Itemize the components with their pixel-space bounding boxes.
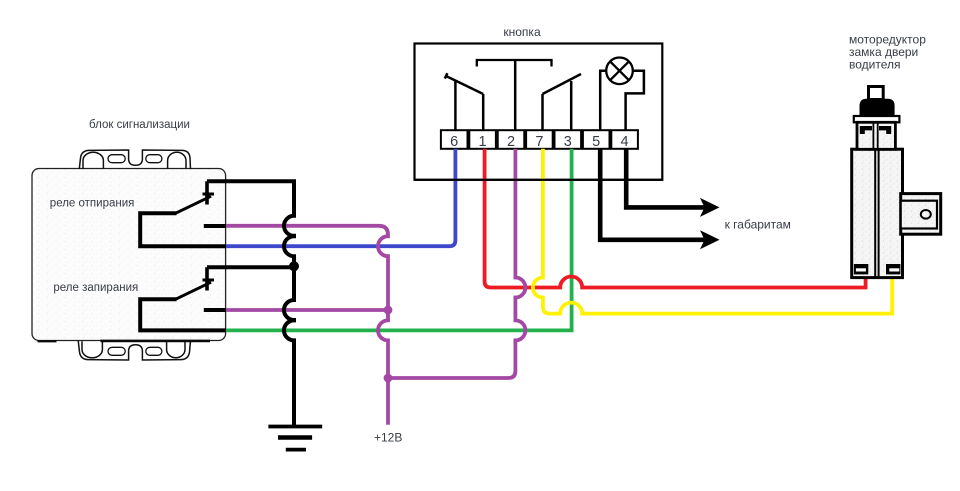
terminal 4 xyxy=(611,130,638,150)
svg-text:реле отпирания: реле отпирания xyxy=(50,198,135,210)
arrow to к габаритам (upper) xyxy=(700,198,720,217)
wire: black terminal 4 to marker lights xyxy=(626,149,713,208)
actuator arm with hole xyxy=(901,194,941,235)
svg-text:1: 1 xyxy=(479,134,487,150)
terminal 6 xyxy=(441,130,468,150)
ground xyxy=(268,427,322,450)
alarm box bottom edge over-strokes xyxy=(38,340,57,342)
terminal 3 xyxy=(555,130,582,150)
svg-text:водителя: водителя xyxy=(849,58,901,72)
svg-text:4: 4 xyxy=(621,134,629,150)
wire: yellow (terminal 7 to actuator) xyxy=(533,149,892,314)
terminal 7 xyxy=(526,130,553,150)
svg-text:2: 2 xyxy=(507,134,515,150)
svg-text:реле запирания: реле запирания xyxy=(53,282,138,294)
svg-text:5: 5 xyxy=(592,134,600,150)
svg-text:кнопка: кнопка xyxy=(503,25,541,39)
actuator M1 (моторедуктор) body xyxy=(852,149,903,277)
alarm box bottom mounting tab xyxy=(78,340,190,360)
terminal 2 xyxy=(498,130,525,150)
alarm box top mounting tab xyxy=(79,150,190,169)
node: purple junction at lock relay branch xyxy=(384,306,393,315)
actuator collar xyxy=(854,116,900,122)
arrow to к габаритам (lower) xyxy=(700,230,720,249)
alarm unit box (блок сигнализации) xyxy=(32,169,226,341)
actuator terminal feet xyxy=(854,264,901,274)
actuator neck xyxy=(857,122,895,149)
terminal 2 link to bracket xyxy=(514,60,517,130)
svg-text:3: 3 xyxy=(564,134,572,150)
svg-text:+12В: +12В xyxy=(374,430,402,444)
relay K1 (реле отпирания) contact xyxy=(140,181,226,246)
lamp HL1 xyxy=(606,58,633,85)
wire: black terminal 5 to marker lights xyxy=(600,149,713,240)
switch S2 (terminals 7-3) xyxy=(543,74,582,130)
actuator plunger pin xyxy=(869,87,884,100)
mechanical link bracket xyxy=(477,60,552,67)
wire: blue (terminal 6 to unlock relay) xyxy=(226,149,455,246)
svg-text:6: 6 xyxy=(450,134,458,150)
wire: purple +12V bus (relay feeds to +12В) xyxy=(226,226,388,425)
actuator rubber cap (black) xyxy=(860,99,895,115)
lamp lead from terminal 5 xyxy=(600,71,606,130)
svg-text:блок сигнализации: блок сигнализации xyxy=(89,119,190,131)
node: black junction xyxy=(289,261,299,271)
button unit box (кнопка) xyxy=(415,44,663,180)
button box bottom border redrawn over wires xyxy=(415,179,663,181)
lamp lead from terminal 4 xyxy=(626,71,644,130)
wire: black common bus (relay commons to ground) xyxy=(207,181,294,426)
terminal 1 xyxy=(469,130,496,150)
switch S1 (terminals 6-1) xyxy=(445,73,483,130)
terminal 5 xyxy=(583,130,610,150)
wire: red (terminal 1 to actuator) xyxy=(485,149,866,288)
node: purple junction at terminal-2 branch xyxy=(384,374,393,383)
svg-text:к габаритам: к габаритам xyxy=(725,218,791,232)
wire: purple branch (lock relay contact) xyxy=(226,308,388,312)
wire: lock relay common to bus xyxy=(207,265,294,269)
svg-text:7: 7 xyxy=(535,134,543,150)
actuator neck clips xyxy=(860,126,872,134)
wire: purple branch to terminal 2 xyxy=(388,149,525,378)
wire: green (terminal 3 to lock relay) xyxy=(226,149,572,331)
relay K2 (реле запирания) contact xyxy=(140,267,226,330)
